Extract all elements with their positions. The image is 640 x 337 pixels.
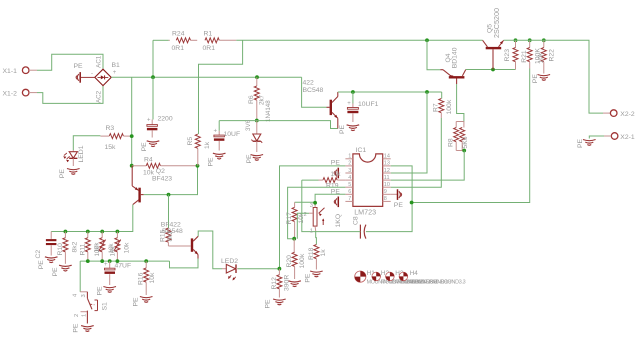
wire R19 left to INV node xyxy=(302,179,319,181)
wire collector net down to pin12 xyxy=(391,92,427,173)
svg-text:PE: PE xyxy=(208,157,215,167)
junction R21 top xyxy=(528,38,532,42)
svg-text:+: + xyxy=(113,70,117,76)
LED LED2 xyxy=(221,258,238,281)
svg-text:2: 2 xyxy=(348,161,351,167)
svg-text:PE: PE xyxy=(74,63,84,70)
PE ground under R18 xyxy=(310,271,323,272)
resistor R3 xyxy=(100,125,131,151)
wire x131 vertical rail to R4 xyxy=(131,77,133,166)
svg-text:PE: PE xyxy=(265,299,272,309)
junction raw rail tap xyxy=(425,38,429,42)
svg-text:R11: R11 xyxy=(79,243,86,255)
wire LED2 cathode to R12 node xyxy=(238,268,280,270)
svg-text:BD140: BD140 xyxy=(452,47,459,68)
wire Q2 base to R5 bottom node xyxy=(144,166,198,195)
svg-text:LED1: LED1 xyxy=(78,145,85,162)
transistor BF422 xyxy=(161,222,198,259)
svg-text:1k: 1k xyxy=(320,249,327,257)
wire Q4 base to R8 xyxy=(457,84,464,122)
resistor R5 xyxy=(187,134,211,166)
resistor R6 xyxy=(248,77,272,122)
svg-text:PE: PE xyxy=(577,138,584,148)
svg-text:R20: R20 xyxy=(286,255,293,268)
svg-text:R23: R23 xyxy=(504,49,511,62)
capacitor 2200 xyxy=(147,77,173,137)
junction R23 top xyxy=(514,38,518,42)
svg-text:100k: 100k xyxy=(446,99,453,114)
pin 1 xyxy=(345,154,353,160)
svg-text:1: 1 xyxy=(348,154,351,160)
resistor R19 xyxy=(319,178,346,190)
svg-text:1: 1 xyxy=(310,229,313,235)
svg-text:4: 4 xyxy=(348,175,351,181)
svg-text:R21: R21 xyxy=(521,50,528,63)
junction LED2/R12 xyxy=(278,267,282,271)
svg-text:R3: R3 xyxy=(106,125,115,132)
svg-text:X1-1: X1-1 xyxy=(3,68,18,75)
mount pad H3 xyxy=(386,270,452,286)
svg-text:+: + xyxy=(214,129,218,135)
resistor R17 xyxy=(286,202,316,238)
wire bus2 xyxy=(80,260,169,262)
svg-text:S1: S1 xyxy=(102,302,109,311)
junction R6 top on rail xyxy=(255,75,259,79)
svg-text:PE: PE xyxy=(304,273,311,283)
svg-text:R4: R4 xyxy=(144,156,153,163)
junction P1 bottom xyxy=(100,259,104,263)
mount pad H4 xyxy=(399,270,465,286)
svg-text:R5: R5 xyxy=(187,137,194,146)
wire R7 bottom to pin10 xyxy=(391,118,442,187)
pin 7 xyxy=(345,196,353,202)
svg-text:R18: R18 xyxy=(308,247,315,260)
LED LED1 xyxy=(63,145,85,166)
svg-text:BF423: BF423 xyxy=(152,176,172,183)
wire R15 top from base net xyxy=(168,195,170,228)
junction base wire to R15 xyxy=(167,193,171,197)
junction rail/top/2200 xyxy=(151,75,155,79)
svg-text:H4: H4 xyxy=(410,270,419,277)
PE ground under zener xyxy=(246,154,263,164)
resistor R1 xyxy=(203,31,237,53)
junction R4 left xyxy=(130,164,134,168)
svg-text:PE: PE xyxy=(532,74,539,84)
PE ground under LED1 xyxy=(59,169,80,179)
PE earth at pin9 xyxy=(391,189,404,209)
junction R16 top xyxy=(144,259,148,263)
resistor R15 xyxy=(159,228,174,246)
svg-text:LED2: LED2 xyxy=(221,258,238,265)
resistor R24 xyxy=(169,31,191,53)
svg-text:10k: 10k xyxy=(109,246,116,257)
svg-text:14: 14 xyxy=(384,154,390,160)
pin 2 xyxy=(345,161,353,167)
svg-text:8: 8 xyxy=(384,196,387,202)
switch S1 xyxy=(73,261,109,323)
svg-text:10k: 10k xyxy=(149,272,156,284)
PE ground under 10UF xyxy=(208,153,226,166)
resistor R18 xyxy=(308,245,327,270)
svg-text:11: 11 xyxy=(384,175,390,181)
wire emitter rail to X2-2 xyxy=(504,40,603,113)
svg-text:+: + xyxy=(347,101,351,107)
wire pin13 FC net down xyxy=(366,166,412,232)
PE ground under R22 xyxy=(532,74,550,84)
svg-text:3: 3 xyxy=(81,294,87,297)
resistor R16 xyxy=(138,261,157,295)
svg-text:R12: R12 xyxy=(271,277,278,290)
wire BF422 emitter to bus2 xyxy=(170,259,199,268)
resistor R23 xyxy=(504,40,518,69)
svg-text:PE: PE xyxy=(59,169,66,179)
svg-text:1k: 1k xyxy=(204,141,211,149)
svg-text:6: 6 xyxy=(348,189,351,195)
mount pad H2 xyxy=(372,270,437,286)
wire raw rail down to Q4 emitter xyxy=(427,40,440,69)
pin 9 xyxy=(383,189,391,195)
PE ground under R16 xyxy=(133,297,153,307)
svg-text:X1-2: X1-2 xyxy=(3,91,18,98)
svg-text:-: - xyxy=(91,71,93,77)
pin 3 xyxy=(345,168,353,174)
svg-text:R16: R16 xyxy=(138,272,145,285)
junction pot P1 top xyxy=(100,230,104,234)
trimmer P1 xyxy=(94,232,115,262)
op-amp regulator IC1 LM723 xyxy=(353,147,383,217)
PE ground under R12 xyxy=(265,299,286,309)
svg-text:12: 12 xyxy=(384,168,390,174)
pin 10 xyxy=(383,182,391,188)
capacitor 10UF1 xyxy=(347,92,378,122)
PE ground at X2-1 xyxy=(577,138,596,148)
svg-text:PE: PE xyxy=(246,154,253,164)
junction R11 top xyxy=(86,230,90,234)
svg-text:10k: 10k xyxy=(538,52,545,64)
svg-text:+: + xyxy=(104,262,108,268)
wire R24 to R1 xyxy=(191,39,198,41)
pin 5 xyxy=(345,182,353,188)
PE earth at pin3 xyxy=(331,168,342,179)
svg-text:3V6: 3V6 xyxy=(245,119,252,131)
wire X1-2 to bridge AC2 xyxy=(29,92,37,94)
svg-text:B1: B1 xyxy=(112,62,121,69)
junction R3/x131 xyxy=(130,134,134,138)
PE ground under 2200 xyxy=(141,141,159,152)
svg-text:C8: C8 xyxy=(353,216,360,225)
wire Q4 collector to Q5 base xyxy=(466,69,516,71)
trimmer 1KQ xyxy=(304,203,343,235)
trimmer P2 xyxy=(109,232,130,262)
svg-text:R24: R24 xyxy=(172,31,185,38)
svg-text:5: 5 xyxy=(348,182,351,188)
svg-text:PE: PE xyxy=(133,297,140,307)
svg-text:3: 3 xyxy=(348,168,351,174)
resistor R10 xyxy=(57,232,79,264)
junction R22 top xyxy=(542,38,546,42)
wire zener node to 10UF and BC548 emitter xyxy=(219,121,338,129)
svg-text:PE: PE xyxy=(97,286,104,296)
svg-text:R1: R1 xyxy=(204,31,213,38)
svg-text:10k: 10k xyxy=(123,242,130,254)
wire pot bottom to R18 xyxy=(315,231,318,245)
wire Q2 collector to bus1 xyxy=(51,205,133,232)
svg-text:X2-1: X2-1 xyxy=(620,134,635,141)
svg-text:10k: 10k xyxy=(94,246,101,257)
resistor R22 xyxy=(538,40,556,73)
pin 14 xyxy=(383,154,391,160)
wire rail up to top wire xyxy=(152,40,154,77)
svg-text:1: 1 xyxy=(82,314,88,317)
svg-text:R7: R7 xyxy=(432,103,439,112)
svg-text:5K6: 5K6 xyxy=(462,136,469,148)
junction zener node xyxy=(255,119,259,123)
svg-text:8k2: 8k2 xyxy=(71,241,78,252)
transistor Q5 2SC5200 xyxy=(483,8,504,69)
svg-text:7: 7 xyxy=(348,196,351,202)
PE earth at pin7 xyxy=(337,197,339,208)
svg-text:0R1: 0R1 xyxy=(203,45,216,52)
svg-text:15k: 15k xyxy=(105,144,117,151)
svg-text:3: 3 xyxy=(310,203,313,209)
resistor R11 xyxy=(79,232,100,262)
wire X2-1 to PE xyxy=(604,135,611,137)
svg-text:Q2: Q2 xyxy=(156,168,165,175)
capacitor C2 xyxy=(35,232,56,259)
junction FC node xyxy=(410,201,414,205)
wire R21 bottom long to FC node xyxy=(412,69,530,203)
junction divider node xyxy=(292,237,296,241)
svg-text:R6: R6 xyxy=(248,95,255,104)
wire BC548 collector net xyxy=(338,91,442,93)
resistor R12 xyxy=(271,269,291,298)
pin 4 xyxy=(345,175,353,181)
svg-text:47UF: 47UF xyxy=(115,262,132,269)
pin 8 xyxy=(383,196,391,202)
junction P2 bottom xyxy=(116,259,120,263)
transistor Q2 BF423 xyxy=(132,166,172,205)
svg-text:+: + xyxy=(147,118,151,124)
svg-text:2200: 2200 xyxy=(158,115,173,122)
junction 47UF top xyxy=(108,259,112,263)
svg-text:PE: PE xyxy=(331,159,341,166)
wire DC rail from bridge xyxy=(111,76,301,78)
PE ground under 10UF1 xyxy=(339,124,359,134)
wire X1-1 to bridge AC1 xyxy=(29,69,37,71)
junction R10 top xyxy=(64,230,68,234)
mount pad H1 xyxy=(355,270,423,286)
connector X2-2 xyxy=(610,110,634,118)
capacitor 10UF xyxy=(214,121,241,151)
PE ground under R20 xyxy=(288,273,311,286)
wire pin5 to divider node xyxy=(288,187,346,239)
svg-text:2: 2 xyxy=(74,314,80,317)
svg-text:R10: R10 xyxy=(57,243,64,256)
resistor R7 xyxy=(432,92,453,118)
svg-text:AC2: AC2 xyxy=(96,90,103,103)
svg-text:MOUNT-PAD-ROUND3.3: MOUNT-PAD-ROUND3.3 xyxy=(410,280,466,286)
capacitor 47UF xyxy=(104,261,131,285)
svg-text:13: 13 xyxy=(384,161,390,167)
capacitor C8 xyxy=(353,216,366,239)
svg-text:2SC5200: 2SC5200 xyxy=(492,8,501,38)
svg-text:R8: R8 xyxy=(448,138,455,147)
pin 6 xyxy=(345,189,353,195)
svg-text:BC548: BC548 xyxy=(162,228,183,235)
PE ground under R10 xyxy=(52,265,72,276)
PE ground under S1 xyxy=(73,323,94,333)
svg-text:BC548: BC548 xyxy=(303,87,324,94)
svg-text:PE: PE xyxy=(73,323,80,333)
svg-text:R17: R17 xyxy=(286,212,293,225)
svg-text:R22: R22 xyxy=(548,49,555,62)
wire top left segment xyxy=(153,39,169,41)
wire pot wiper to divider node xyxy=(297,213,309,239)
svg-text:X2-2: X2-2 xyxy=(620,111,635,118)
wire R8 bottom to pin11 xyxy=(391,151,465,181)
junction pot P2 top xyxy=(116,230,120,234)
wire BF422 collector to LED2 xyxy=(198,231,222,269)
junction collector net to pin12 xyxy=(425,90,429,94)
wire from top down to R5 xyxy=(199,40,243,134)
svg-text:0R1: 0R1 xyxy=(172,45,185,52)
svg-text:PE: PE xyxy=(38,260,45,270)
resistor R21 xyxy=(521,40,542,68)
svg-text:1KQ: 1KQ xyxy=(335,214,342,228)
svg-text:PE: PE xyxy=(394,202,404,209)
junction pot top xyxy=(313,201,317,205)
PE ground under 47UF xyxy=(97,286,117,296)
svg-text:9: 9 xyxy=(384,189,387,195)
wire pin2 CL net xyxy=(280,166,346,269)
junction R11 bottom xyxy=(86,259,90,263)
wire rail down to BC548 base xyxy=(302,77,327,107)
transistor Q4 BD140 xyxy=(440,47,466,84)
zener diode 3V6 xyxy=(245,119,262,152)
svg-text:10UF1: 10UF1 xyxy=(358,101,379,108)
svg-text:100k: 100k xyxy=(299,253,306,268)
svg-text:10: 10 xyxy=(384,182,390,188)
connector X2-1 xyxy=(611,133,635,142)
svg-text:PE: PE xyxy=(141,142,148,152)
wire top right segment to Q5 xyxy=(236,39,482,41)
svg-text:PE: PE xyxy=(52,267,59,277)
junction 10UF1 tap xyxy=(351,90,355,94)
wire C8 left to INV node xyxy=(302,180,361,232)
svg-text:422: 422 xyxy=(303,80,315,87)
PE earth at bridge minus xyxy=(74,63,95,83)
svg-text:IC1: IC1 xyxy=(356,147,367,154)
junction R4/R5 node xyxy=(196,164,200,168)
wire pin6 to pot top xyxy=(315,194,345,206)
junction Q5 base xyxy=(491,68,495,72)
resistor R20 xyxy=(286,239,306,279)
resistor R4 xyxy=(132,156,198,176)
bridge rectifier B1 xyxy=(91,55,120,103)
pin 12 xyxy=(383,168,391,174)
resistor R8 pair 5K6 xyxy=(448,122,469,151)
connector X1-2 xyxy=(3,89,30,97)
svg-text:AC1: AC1 xyxy=(96,55,103,68)
pin 13 xyxy=(383,161,391,167)
svg-text:PE: PE xyxy=(339,124,346,134)
junction R8 bottom xyxy=(462,149,466,153)
connector X1-1 xyxy=(3,67,30,75)
wire R3 to LED1 xyxy=(73,136,100,151)
transistor 422 BC548 xyxy=(303,80,338,129)
pin 11 xyxy=(383,175,391,181)
svg-text:10UF: 10UF xyxy=(224,131,241,138)
PE ground under C2 xyxy=(38,257,58,270)
svg-text:1N4148: 1N4148 xyxy=(265,100,272,122)
svg-text:390R: 390R xyxy=(283,275,290,291)
svg-text:LM723: LM723 xyxy=(354,208,376,217)
svg-text:C2: C2 xyxy=(35,250,42,259)
